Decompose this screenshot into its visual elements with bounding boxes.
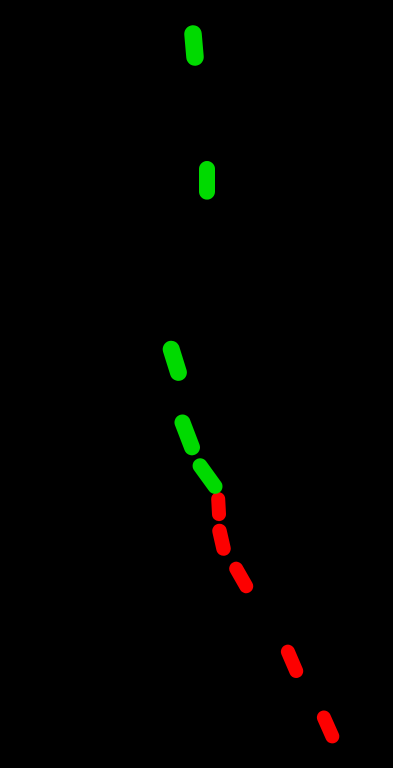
route dash segment 3 (green) [171, 349, 178, 372]
route dash segment 10 (red) [324, 718, 332, 737]
route dash segment 9 (red) [288, 652, 296, 671]
route dash segment 7 (red) [220, 531, 224, 549]
route dash segment 2 (green) [199, 169, 215, 192]
route dash segment 6 (red) [211, 499, 226, 514]
route dash segment 8 (red) [236, 569, 246, 587]
route dash segment 5 (green) [200, 466, 215, 487]
route dash segment 4 (green) [183, 423, 193, 448]
route dash segment 1 (green) [193, 34, 195, 57]
